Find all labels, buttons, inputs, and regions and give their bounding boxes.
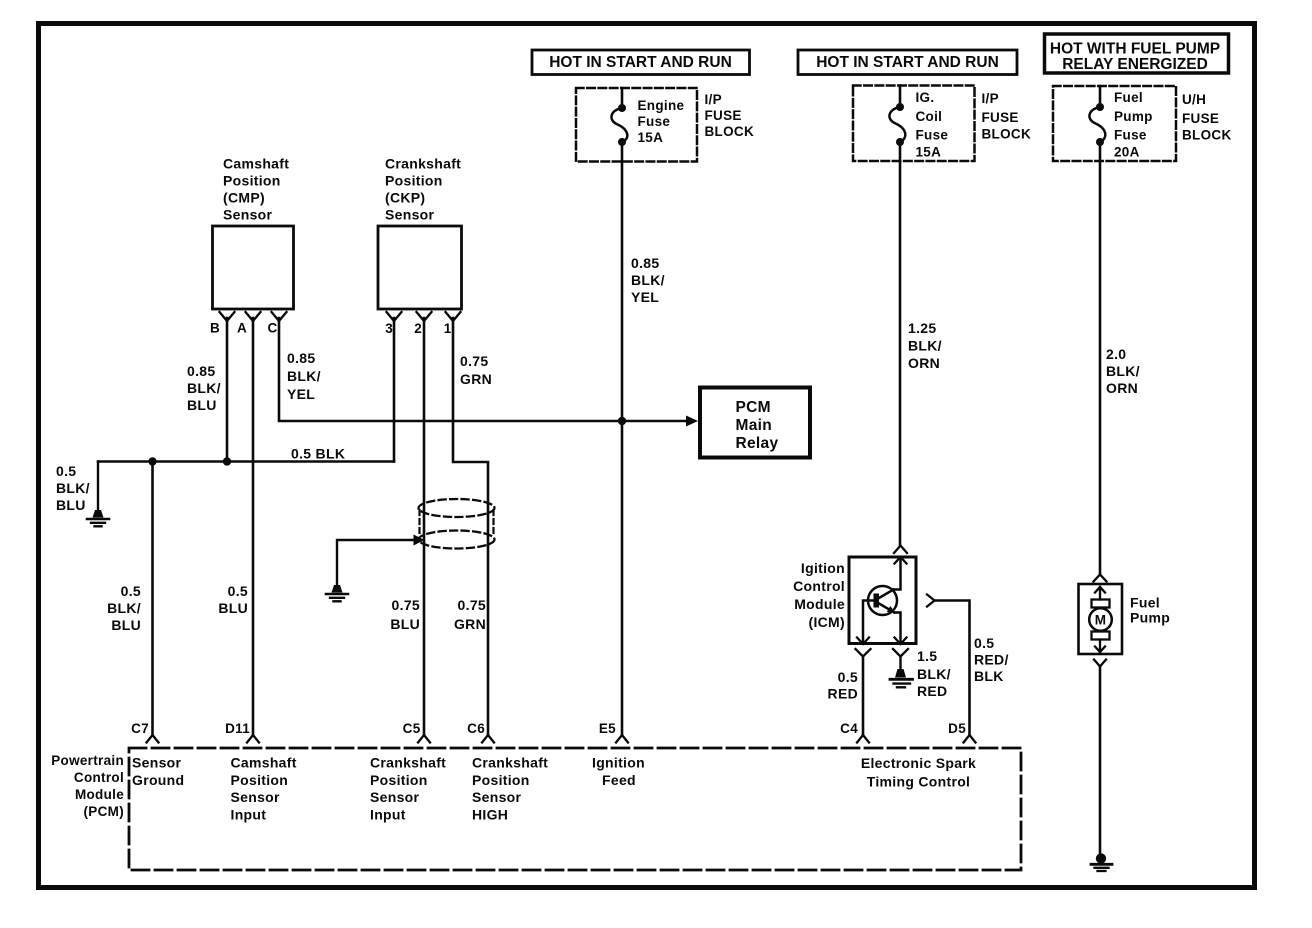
svg-text:YEL: YEL — [287, 386, 315, 402]
svg-text:Crankshaft: Crankshaft — [370, 755, 446, 771]
svg-text:RED/: RED/ — [974, 652, 1009, 668]
pin B of CMP sensor — [210, 312, 235, 336]
ground (sensor ground branch) — [87, 510, 109, 526]
svg-text:C5: C5 — [403, 721, 421, 736]
shield (twisted pair) around CKP wires — [419, 499, 495, 549]
svg-text:BLOCK: BLOCK — [705, 124, 755, 139]
svg-text:HOT IN START AND RUN: HOT IN START AND RUN — [816, 54, 999, 71]
pin D5 of PCM — [948, 721, 975, 743]
connector below ICM (C4 side) — [856, 649, 871, 657]
svg-text:YEL: YEL — [631, 289, 659, 305]
ground (shield drain) — [326, 585, 348, 601]
label 0.85 BLK/BLU (pin B wire) — [187, 363, 221, 413]
fuse IG. Coil Fuse 15A — [889, 90, 948, 160]
svg-text:Input: Input — [370, 806, 406, 822]
header box HOT IN START AND RUN (left) — [532, 50, 750, 75]
connector below ICM (ground side) — [893, 649, 908, 657]
wire ICM emitter stub to ground — [899, 657, 901, 670]
fuse Fuel Pump Fuse 20A — [1089, 90, 1152, 160]
svg-text:Input: Input — [231, 806, 267, 822]
arrow into PCM main relay — [686, 416, 698, 427]
junction ignition feed / relay feed — [618, 417, 626, 425]
svg-text:Sensor: Sensor — [385, 207, 435, 223]
svg-text:Fuse: Fuse — [916, 128, 949, 143]
svg-text:(CKP): (CKP) — [385, 190, 425, 206]
svg-text:C7: C7 — [131, 721, 149, 736]
svg-text:I/P: I/P — [705, 92, 722, 107]
pin C6 of PCM — [467, 721, 494, 743]
node Camshaft Position Sensor Input — [231, 755, 297, 823]
svg-text:0.5 BLK: 0.5 BLK — [291, 446, 345, 462]
wire CMP pin A down to PCM D11 — [252, 318, 255, 735]
ground (fuel pump) — [1091, 853, 1112, 871]
wire CMP pin C to PCM main relay — [279, 318, 688, 421]
svg-text:Pump: Pump — [1130, 610, 1170, 626]
node Ignition Feed — [592, 755, 645, 788]
svg-text:Control: Control — [793, 578, 845, 594]
CMP sensor box — [213, 156, 294, 310]
svg-text:Electronic Spark: Electronic Spark — [861, 755, 976, 771]
node Sensor Ground — [132, 755, 184, 788]
svg-text:U/H: U/H — [1182, 92, 1206, 107]
pin C5 of PCM — [403, 721, 430, 743]
label Powertrain Control Module (PCM) — [51, 753, 124, 819]
wire CMP pin B down to sensor-ground bus — [226, 318, 229, 462]
wire bus left branch to ground — [97, 462, 99, 511]
wire fuel pump fuse down to fuel pump — [1099, 142, 1102, 574]
wire ICM base lead to C4 exit — [863, 601, 874, 644]
svg-text:M: M — [1095, 613, 1107, 628]
label 0.75 BLU (C5 wire) — [390, 597, 420, 632]
arrow out of ICM bottom (C4) — [857, 638, 869, 645]
pin D11 of PCM — [225, 721, 259, 743]
svg-text:BLK: BLK — [974, 668, 1004, 684]
svg-text:D5: D5 — [948, 721, 966, 736]
svg-text:Control: Control — [74, 770, 124, 785]
svg-text:ORN: ORN — [1106, 380, 1138, 396]
label 0.5 RED — [828, 669, 858, 702]
connector above fuel pump — [1094, 575, 1107, 582]
svg-text:BLK/: BLK/ — [917, 666, 951, 682]
junction on shield drain — [414, 535, 425, 546]
svg-text:Ignition: Ignition — [592, 755, 645, 771]
label 2.0 BLK/ORN — [1106, 346, 1140, 396]
svg-text:20A: 20A — [1114, 145, 1140, 160]
ground (ICM emitter) — [890, 669, 913, 687]
svg-text:BLK/: BLK/ — [631, 272, 665, 288]
svg-text:Powertrain: Powertrain — [51, 753, 124, 768]
label 1.5 BLK/RED — [917, 648, 951, 699]
svg-text:RED: RED — [828, 686, 858, 702]
svg-text:BLU: BLU — [218, 600, 248, 616]
svg-text:RED: RED — [917, 683, 947, 699]
svg-text:ORN: ORN — [908, 355, 940, 371]
svg-text:Position: Position — [231, 772, 289, 788]
wire fuse feed (IG coil fuse, top stub) — [899, 86, 902, 108]
svg-text:FUSE: FUSE — [982, 110, 1019, 125]
svg-text:Position: Position — [472, 772, 530, 788]
svg-text:C4: C4 — [840, 721, 858, 736]
connector below fuel pump — [1094, 660, 1106, 667]
svg-text:Relay: Relay — [736, 435, 779, 452]
svg-text:RELAY ENERGIZED: RELAY ENERGIZED — [1062, 56, 1208, 73]
header box HOT WITH FUEL PUMP RELAY ENERGIZED — [1045, 34, 1229, 73]
wire IG coil fuse down to ICM — [899, 142, 902, 546]
label U/H FUSE BLOCK — [1182, 92, 1232, 143]
arrow out of ICM bottom (ground side) — [895, 638, 907, 645]
pin C of CMP sensor — [267, 312, 286, 336]
wire fuel pump to ground — [1099, 667, 1102, 856]
svg-text:BLK/: BLK/ — [287, 368, 321, 384]
svg-text:BLOCK: BLOCK — [982, 127, 1032, 142]
wire EST output to PCM D5 — [935, 601, 970, 736]
label 0.5 BLK/BLU (C7 wire) — [107, 583, 141, 633]
junction bus / pin B wire — [223, 457, 231, 465]
svg-text:Fuse: Fuse — [638, 114, 671, 129]
svg-text:HOT IN START AND RUN: HOT IN START AND RUN — [549, 54, 732, 71]
label 0.85 BLK/YEL (pin C wire) — [287, 350, 321, 402]
fuse Engine Fuse 15A — [611, 98, 684, 146]
svg-text:FUSE: FUSE — [1182, 111, 1219, 126]
wire shield drain to ground — [337, 540, 421, 585]
wire ICM emitter to ground exit — [895, 613, 901, 644]
motor M1 Fuel Pump — [1079, 584, 1171, 654]
svg-text:15A: 15A — [638, 130, 664, 145]
svg-text:0.75: 0.75 — [458, 597, 486, 613]
pin C7 of PCM — [131, 721, 158, 743]
header box HOT IN START AND RUN (right) — [798, 50, 1017, 75]
svg-text:Camshaft: Camshaft — [223, 156, 289, 172]
svg-text:2.0: 2.0 — [1106, 346, 1126, 362]
svg-text:Coil: Coil — [916, 109, 943, 124]
svg-text:0.5: 0.5 — [974, 635, 994, 651]
wire ICM C4 lead down to PCM C4 — [862, 657, 865, 736]
I/P fuse block box (Engine Fuse) — [576, 88, 697, 162]
pin A of CMP sensor — [237, 312, 261, 336]
connector at ICM top (caret above box) — [894, 546, 907, 554]
svg-text:(CMP): (CMP) — [223, 190, 265, 206]
wire sensor ground bus 0.5 BLK — [98, 460, 394, 463]
svg-text:1: 1 — [444, 321, 452, 336]
wire ICM internal collector feed — [894, 557, 901, 590]
svg-text:2: 2 — [414, 321, 422, 336]
svg-text:Feed: Feed — [602, 772, 636, 788]
wire engine fuse down to PCM E5 (ignition feed) — [621, 142, 624, 735]
svg-text:0.75: 0.75 — [392, 597, 420, 613]
wire sensor ground bus down to PCM C7 — [151, 462, 154, 736]
svg-text:IG.: IG. — [916, 90, 935, 105]
svg-text:Pump: Pump — [1114, 109, 1153, 124]
svg-text:0.5: 0.5 — [121, 583, 141, 599]
svg-text:BLK/: BLK/ — [908, 338, 942, 354]
svg-text:GRN: GRN — [454, 616, 486, 632]
pin 3 of CKP sensor — [385, 312, 401, 336]
svg-text:Fuel: Fuel — [1114, 90, 1143, 105]
label I/P FUSE BLOCK (IG coil fuse) — [982, 91, 1032, 142]
svg-text:BLU: BLU — [56, 497, 86, 513]
label 0.5 BLK/BLU (ground branch) — [56, 463, 90, 513]
svg-text:I/P: I/P — [982, 91, 999, 106]
svg-text:Module: Module — [75, 787, 124, 802]
svg-text:FUSE: FUSE — [705, 108, 742, 123]
svg-text:BLU: BLU — [390, 616, 420, 632]
svg-text:0.85: 0.85 — [287, 350, 315, 366]
svg-text:Position: Position — [385, 173, 443, 189]
label I/P FUSE BLOCK (engine fuse) — [705, 92, 755, 139]
svg-text:Engine: Engine — [638, 98, 685, 113]
svg-text:B: B — [210, 321, 220, 336]
label 0.5 RED/BLK — [974, 635, 1009, 684]
svg-text:PCM: PCM — [736, 399, 771, 416]
wire CKP pin 3 down to sensor-ground bus — [393, 318, 396, 462]
wire fuse feed (fuel pump fuse, top stub) — [1099, 86, 1102, 107]
svg-text:1.5: 1.5 — [917, 648, 937, 664]
svg-text:C: C — [267, 321, 277, 336]
svg-text:(PCM): (PCM) — [84, 804, 125, 819]
svg-text:3: 3 — [385, 321, 393, 336]
svg-text:C6: C6 — [467, 721, 485, 736]
svg-text:0.75: 0.75 — [460, 353, 488, 369]
svg-text:Camshaft: Camshaft — [231, 755, 297, 771]
label 0.75 GRN (pin 1 wire) — [460, 353, 492, 387]
node Electronic Spark Timing Control — [861, 755, 976, 790]
junction bus / C7 wire — [148, 457, 156, 465]
pin 2 of CKP sensor — [414, 312, 431, 336]
pin C4 of PCM — [840, 721, 869, 743]
svg-text:15A: 15A — [916, 145, 942, 160]
svg-text:Sensor: Sensor — [231, 789, 281, 805]
label 1.25 BLK/ORN — [908, 320, 942, 371]
svg-text:D11: D11 — [225, 721, 250, 736]
node Crankshaft Position Sensor Input — [370, 755, 446, 823]
svg-text:Igition: Igition — [801, 560, 845, 576]
svg-text:Main: Main — [736, 417, 773, 434]
svg-text:Sensor: Sensor — [132, 755, 182, 771]
svg-text:Sensor: Sensor — [223, 207, 273, 223]
svg-text:E5: E5 — [599, 721, 616, 736]
svg-text:0.5: 0.5 — [56, 463, 76, 479]
svg-text:0.85: 0.85 — [631, 255, 659, 271]
label 0.5 BLU (D11 wire) — [218, 583, 248, 616]
svg-text:(ICM): (ICM) — [809, 614, 846, 630]
svg-text:Position: Position — [223, 173, 281, 189]
svg-text:0.5: 0.5 — [228, 583, 248, 599]
svg-text:Module: Module — [794, 596, 845, 612]
transistor Q1 (NPN, ignition driver) — [868, 586, 897, 615]
svg-text:1.25: 1.25 — [908, 320, 936, 336]
svg-text:Crankshaft: Crankshaft — [472, 755, 548, 771]
svg-text:BLK/: BLK/ — [56, 480, 90, 496]
pin E5 of PCM — [599, 721, 628, 743]
svg-text:Crankshaft: Crankshaft — [385, 156, 461, 172]
svg-text:BLK/: BLK/ — [1106, 363, 1140, 379]
wire fuse feed (engine fuse, top stub) — [621, 88, 624, 108]
svg-text:BLU: BLU — [111, 617, 141, 633]
svg-text:HIGH: HIGH — [472, 806, 508, 822]
I/P fuse block box (IG Coil Fuse) — [853, 86, 975, 162]
ICM module box — [793, 557, 916, 644]
wire CKP pin 2 down to PCM C5 — [423, 318, 426, 735]
label 0.75 GRN (C6 wire) — [454, 597, 486, 632]
svg-text:BLK/: BLK/ — [187, 380, 221, 396]
pin 1 of CKP sensor — [444, 312, 461, 336]
svg-text:Timing Control: Timing Control — [867, 774, 971, 790]
label 0.85 BLK/YEL (ignition feed wire) — [631, 255, 665, 305]
svg-text:Position: Position — [370, 772, 428, 788]
svg-text:GRN: GRN — [460, 371, 492, 387]
svg-text:BLU: BLU — [187, 397, 217, 413]
svg-text:A: A — [237, 321, 247, 336]
svg-text:0.5: 0.5 — [838, 669, 858, 685]
svg-text:Fuse: Fuse — [1114, 128, 1147, 143]
svg-text:Fuel: Fuel — [1130, 595, 1160, 611]
svg-text:0.85: 0.85 — [187, 363, 215, 379]
arrow into ICM top — [895, 557, 907, 564]
svg-text:BLOCK: BLOCK — [1182, 128, 1232, 143]
svg-text:BLK/: BLK/ — [107, 600, 141, 616]
svg-text:Ground: Ground — [132, 772, 184, 788]
connector at ICM right (EST output) — [927, 595, 935, 607]
svg-text:Sensor: Sensor — [370, 789, 420, 805]
wire CKP pin 1 down to PCM C6 — [453, 318, 488, 735]
relay PCM Main Relay — [700, 388, 810, 458]
svg-text:Sensor: Sensor — [472, 789, 522, 805]
PCM connector box (Powertrain Control Module) — [129, 748, 1021, 870]
U/H fuse block box (Fuel Pump Fuse) — [1053, 86, 1176, 161]
node Crankshaft Position Sensor HIGH — [472, 755, 548, 823]
CKP sensor box — [378, 156, 462, 310]
svg-text:HOT WITH FUEL PUMP: HOT WITH FUEL PUMP — [1050, 41, 1220, 58]
